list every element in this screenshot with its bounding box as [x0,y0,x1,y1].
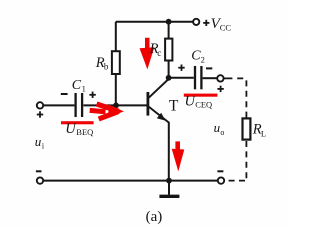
red arrow current through Rc [140,38,155,70]
resistor Rb [112,51,120,74]
wire Rb bottom lead [115,74,117,105]
terminal input top [37,102,43,108]
terminal output bottom [218,177,224,183]
label plus under output terminal [217,86,223,92]
svg-text:CEQ: CEQ [195,100,212,110]
label minus at C1 [61,93,68,95]
label plus at C1 [89,92,95,98]
label +Vcc [203,20,209,26]
wire dashed load loop [224,78,246,180]
resistor RL [243,118,251,139]
transistor T emitter lead [149,107,169,123]
svg-text:i: i [42,142,45,151]
node base [113,103,119,109]
wire base (C1 to transistor) [83,104,147,106]
terminal output top [217,75,223,81]
red strike bar over UCEQ [184,94,218,97]
label plus under input terminal [37,111,43,117]
resistor Rc [165,39,172,61]
svg-text:2: 2 [201,55,205,65]
svg-text:1: 1 [82,83,86,93]
terminal +Vcc [193,19,199,25]
svg-text:b: b [104,62,109,72]
svg-text:C: C [72,78,82,93]
red strike bar over UBEQ [61,121,94,124]
svg-text:T: T [169,98,179,115]
node top rail / Rc [166,19,172,25]
ground [159,181,179,197]
node emitter / ground [166,178,172,184]
wire collector node to C2 [169,77,194,79]
label minus above input bottom terminal [36,170,42,172]
wire base (input to C1) [43,104,74,106]
label minus at C2 [206,67,212,69]
transistor T emitter arrowhead [157,113,166,121]
capacitor C1 plates [76,93,83,117]
wire top rail [116,21,193,23]
wire emitter vertical [168,122,170,181]
wire Rb top lead [115,22,117,52]
node collector [166,75,172,81]
svg-text:BEQ: BEQ [76,127,93,137]
transistor T base bar [146,92,149,116]
capacitor C2 plates [195,66,201,89]
transistor T collector lead [149,79,169,98]
terminal input bottom [37,177,43,183]
svg-text:L: L [261,128,266,138]
svg-text:CC: CC [220,23,232,33]
red arrow emitter current [172,141,185,171]
label minus above output bottom terminal [217,170,223,172]
wire Rc bottom lead [168,61,170,78]
wire C2 to output terminal [203,77,218,79]
wire Rc top lead [168,22,170,39]
svg-text:c: c [157,48,161,58]
svg-text:(a): (a) [146,209,163,225]
red arrow base current [90,104,123,119]
wire bottom rail [43,180,217,182]
label plus at C2 [178,65,184,71]
svg-text:u: u [35,134,42,149]
svg-text:o: o [220,128,224,137]
